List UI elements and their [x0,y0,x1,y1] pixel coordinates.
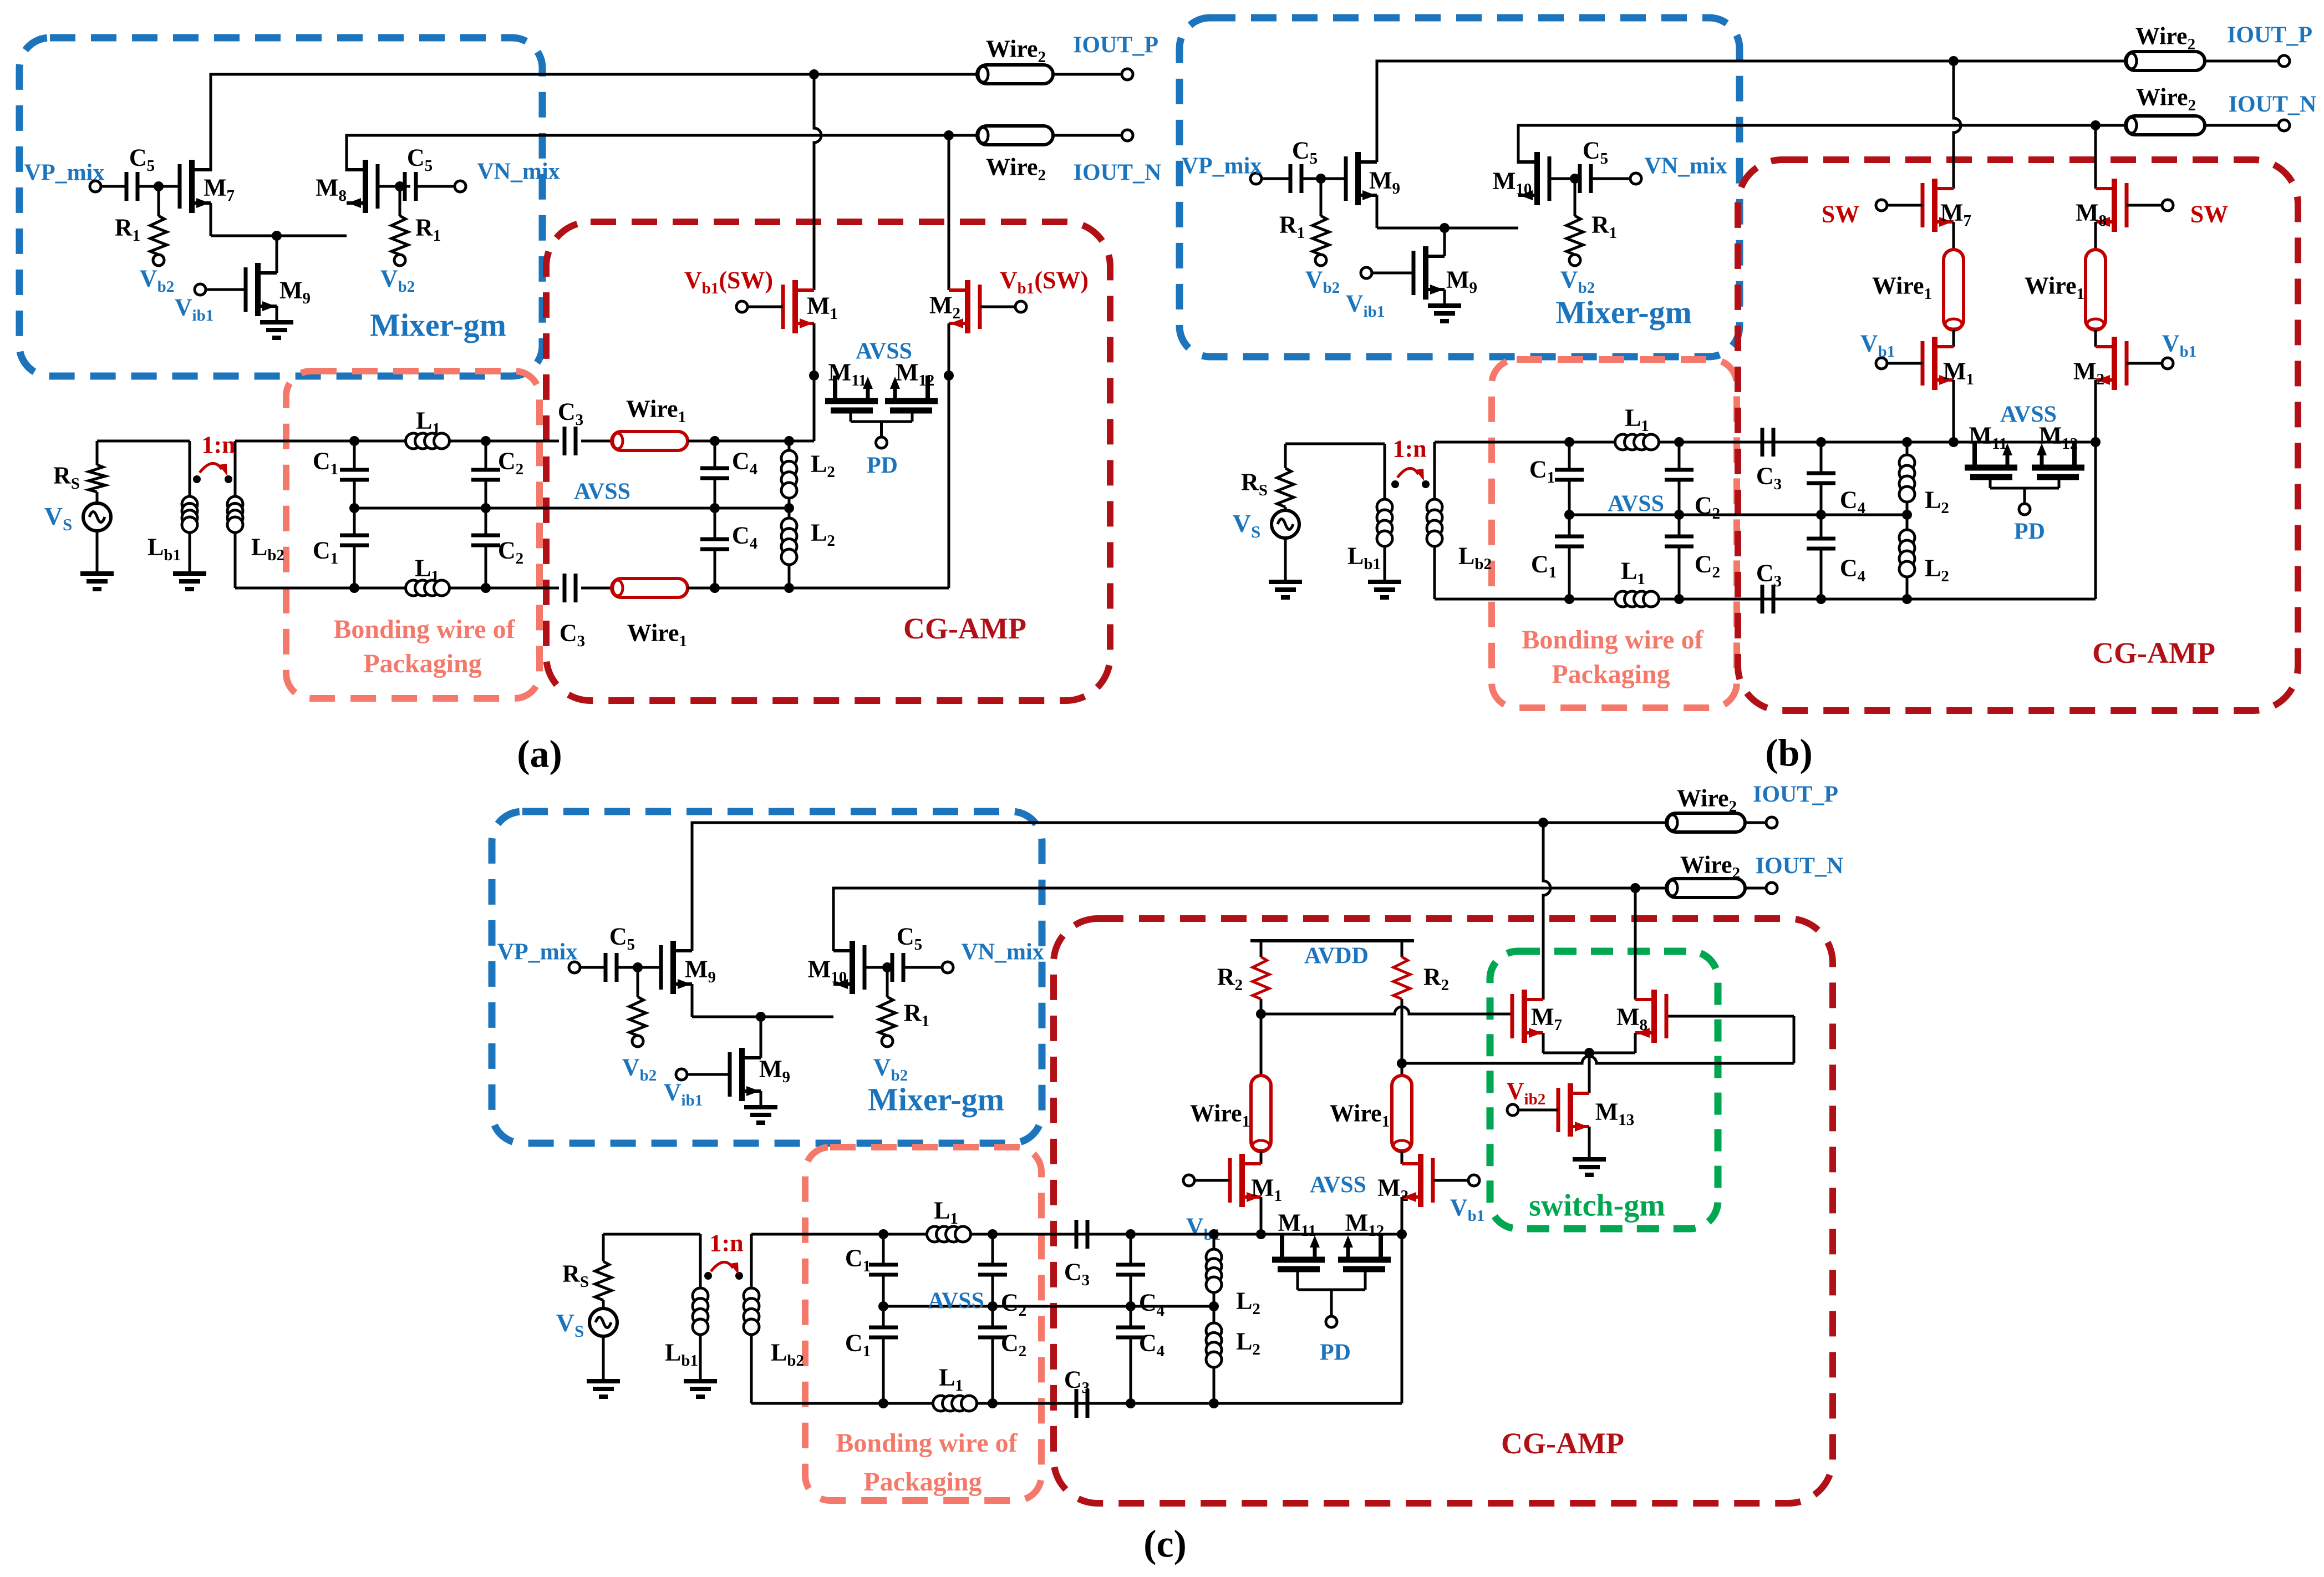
svg-text:(b): (b) [1765,732,1813,775]
svg-text:VN_mix: VN_mix [961,940,1044,965]
svg-text:Mixer-gm: Mixer-gm [868,1081,1004,1117]
svg-text:Bonding wire of: Bonding wire of [836,1428,1018,1458]
svg-text:Wire2: Wire2 [2136,83,2196,114]
svg-text:Bonding wire of: Bonding wire of [333,615,515,644]
svg-text:IOUT_P: IOUT_P [1753,782,1838,808]
svg-text:1:n: 1:n [1392,435,1426,462]
svg-text:PD: PD [867,453,898,479]
svg-text:Wire1: Wire1 [2025,272,2084,303]
svg-text:Packaging: Packaging [363,649,481,678]
svg-text:Wire1: Wire1 [1330,1099,1390,1130]
svg-text:Wire1: Wire1 [627,619,687,650]
svg-text:Vb1(SW): Vb1(SW) [1000,266,1089,297]
svg-text:Wire1: Wire1 [1872,272,1932,303]
svg-text:(a): (a) [517,733,562,776]
svg-text:Mixer-gm: Mixer-gm [370,307,506,343]
svg-text:VP_mix: VP_mix [24,160,105,186]
svg-text:Bonding wire of: Bonding wire of [1522,625,1703,655]
svg-text:PD: PD [1320,1340,1351,1366]
svg-text:CG-AMP: CG-AMP [1501,1427,1624,1460]
svg-text:SW: SW [1822,200,1859,227]
svg-text:switch-gm: switch-gm [1529,1189,1665,1223]
svg-text:Wire1: Wire1 [1190,1099,1250,1130]
svg-text:AVSS: AVSS [574,479,630,505]
svg-text:AVSS: AVSS [1310,1173,1366,1198]
svg-text:IOUT_N: IOUT_N [1756,854,1844,879]
svg-text:Packaging: Packaging [863,1467,982,1497]
svg-text:1:n: 1:n [201,431,235,458]
svg-text:CG-AMP: CG-AMP [2092,636,2215,670]
svg-text:VN_mix: VN_mix [477,159,560,185]
svg-text:Wire2: Wire2 [1680,851,1740,882]
svg-text:Wire2: Wire2 [2135,22,2195,53]
svg-text:Packaging: Packaging [1552,660,1670,689]
svg-text:AVDD: AVDD [1304,944,1369,969]
svg-text:IOUT_P: IOUT_P [1073,33,1158,58]
svg-text:VP_mix: VP_mix [497,940,578,965]
svg-text:SW: SW [2190,200,2228,227]
svg-text:Wire2: Wire2 [986,153,1046,184]
svg-text:CG-AMP: CG-AMP [903,612,1026,645]
svg-text:PD: PD [2014,519,2045,545]
svg-text:VN_mix: VN_mix [1644,154,1727,179]
svg-text:1:n: 1:n [709,1229,743,1256]
svg-text:Wire1: Wire1 [626,395,686,426]
svg-text:Mixer-gm: Mixer-gm [1555,294,1692,330]
svg-text:AVSS: AVSS [1608,491,1664,517]
svg-text:Vb1(SW): Vb1(SW) [684,266,773,297]
svg-text:IOUT_N: IOUT_N [1074,160,1162,186]
svg-text:Wire2: Wire2 [1677,784,1737,815]
svg-text:AVSS: AVSS [928,1289,984,1314]
svg-text:IOUT_P: IOUT_P [2227,23,2312,48]
svg-text:(c): (c) [1143,1523,1187,1566]
svg-text:VP_mix: VP_mix [1182,154,1262,179]
svg-text:Wire2: Wire2 [986,35,1046,66]
svg-text:IOUT_N: IOUT_N [2229,92,2317,118]
